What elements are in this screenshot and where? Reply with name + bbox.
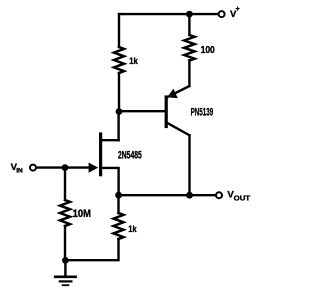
wire collector down to node E [188, 135, 190, 195]
wire left column from top rail to R1 top [118, 14, 120, 47]
svg-text:2N5485: 2N5485 [118, 149, 142, 161]
terminal V+ open circle [219, 11, 225, 17]
wire top rail dot to R2 [188, 14, 190, 35]
wire VOUT line [119, 194, 215, 196]
transistor Q2 PN5139 base bar [165, 97, 168, 127]
wire R2 bottom to emitter of Q2 [188, 61, 190, 87]
wire R4 bottom to ground node [65, 239, 118, 260]
svg-text:1k: 1k [129, 56, 138, 66]
svg-text:OUT: OUT [234, 195, 251, 202]
node D junction dot (source / R4 / Vout line) [115, 192, 122, 199]
node C ground junction dot [62, 257, 69, 264]
terminal VOUT open circle [216, 192, 222, 198]
transistor Q2 emitter diagonal [168, 86, 189, 97]
wire base of Q2 from node A [119, 110, 165, 112]
resistor R3 10M [60, 200, 70, 226]
node T junction dot on top rail (100 branch) [186, 11, 193, 18]
transistor Q2 collector diagonal [167, 123, 190, 136]
node E junction dot (collector / Vout line) [186, 192, 193, 199]
terminal VIN open circle [30, 165, 36, 171]
svg-text:100: 100 [201, 45, 216, 56]
wire top rail from 1k to V+ terminal [119, 13, 218, 15]
wire R1 bottom to node A [118, 73, 120, 112]
resistor R4 1k (bottom) [114, 213, 124, 239]
node B junction dot (VIN / 10M) [62, 164, 69, 171]
resistor R1 1k (top left) [114, 47, 124, 73]
wire R3 bottom to ground node [64, 226, 66, 260]
transistor Q1 source lead [101, 168, 119, 195]
wire VIN to gate arrow [36, 166, 89, 168]
node A junction dot (R1 / base / drain) [116, 108, 123, 115]
ground symbol [55, 260, 75, 285]
transistor Q1 2N5485 JFET channel bar [99, 134, 102, 175]
wire node D to R4 top [117, 195, 119, 213]
svg-text:10M: 10M [73, 208, 92, 220]
wire drain lead horizontal [101, 139, 119, 141]
svg-text:PN5139: PN5139 [191, 107, 214, 119]
wire node B down to R3 top [64, 168, 66, 200]
resistor R2 100 [184, 35, 194, 61]
wire node A down to drain of Q1 [117, 112, 119, 141]
svg-text:1k: 1k [128, 224, 137, 234]
svg-text:IN: IN [16, 167, 23, 174]
svg-text:+: + [236, 6, 240, 13]
transistor Q1 gate arrow [89, 163, 99, 173]
transistor Q2 emitter arrowhead (PNP, points to base bar) [167, 89, 178, 99]
